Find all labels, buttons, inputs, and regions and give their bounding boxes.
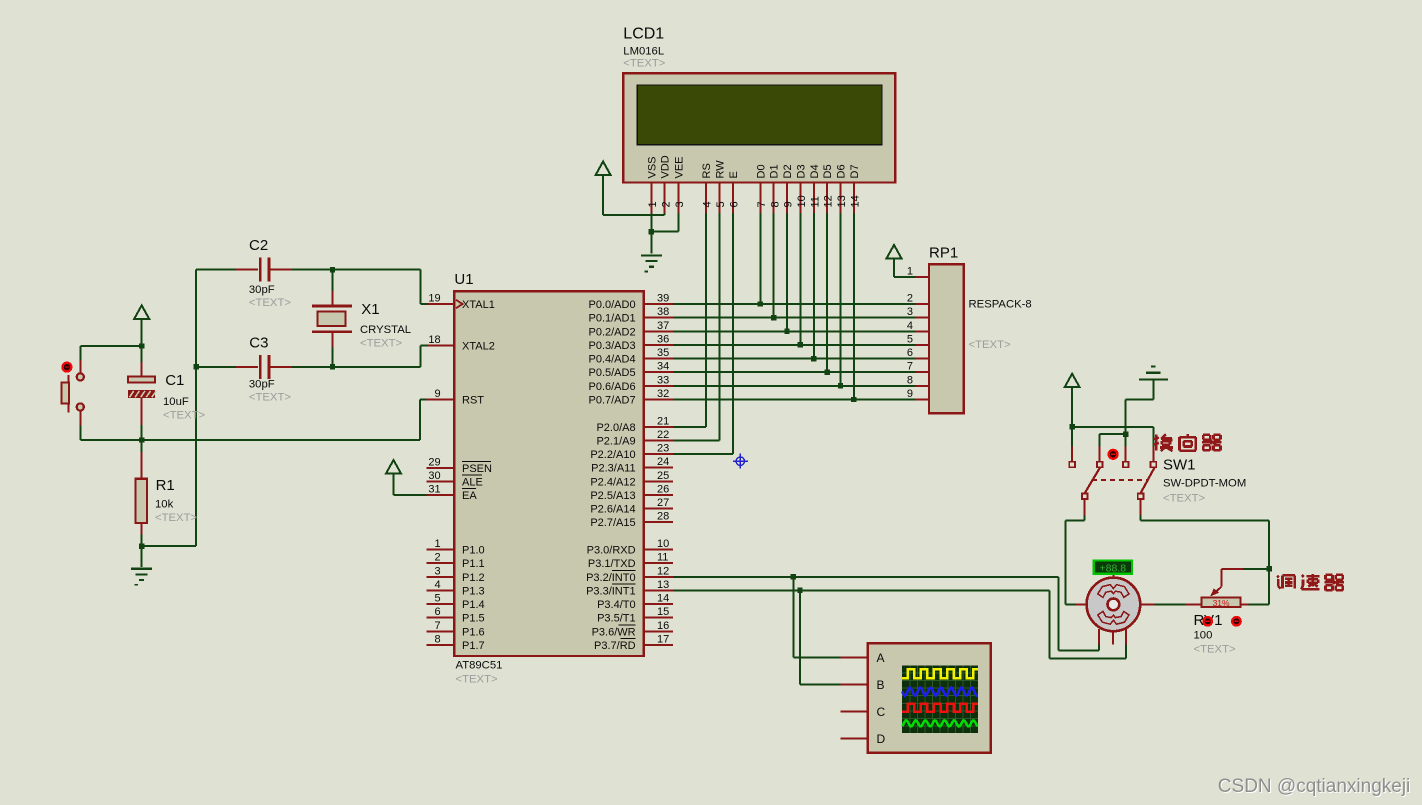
svg-text:4: 4 — [434, 579, 440, 591]
svg-text:P1.3: P1.3 — [462, 585, 485, 597]
svg-text:14: 14 — [850, 195, 862, 207]
svg-text:6: 6 — [907, 347, 913, 359]
svg-text:P0.2/AD2: P0.2/AD2 — [589, 326, 636, 338]
svg-text:D0: D0 — [755, 164, 767, 178]
svg-text:P0.1/AD1: P0.1/AD1 — [589, 313, 636, 325]
svg-text:100: 100 — [1194, 630, 1213, 642]
svg-text:1: 1 — [647, 201, 659, 207]
svg-text:XTAL1: XTAL1 — [462, 299, 495, 311]
svg-text:R1: R1 — [156, 477, 175, 494]
svg-text:3: 3 — [674, 201, 686, 207]
svg-text:2: 2 — [434, 552, 440, 564]
svg-text:28: 28 — [657, 511, 669, 523]
svg-text:RS: RS — [701, 163, 713, 178]
svg-text:SW1: SW1 — [1163, 456, 1196, 473]
svg-text:6: 6 — [434, 606, 440, 618]
svg-text:22: 22 — [657, 429, 669, 441]
svg-text:<TEXT>: <TEXT> — [360, 338, 402, 350]
svg-text:LM016L: LM016L — [623, 46, 664, 58]
svg-text:RW: RW — [714, 160, 726, 179]
svg-text:RESPACK-8: RESPACK-8 — [969, 299, 1032, 311]
svg-text:P3.0/RXD: P3.0/RXD — [587, 545, 636, 557]
svg-text:31: 31 — [428, 484, 440, 496]
svg-text:3: 3 — [434, 565, 440, 577]
svg-text:P2.1/A9: P2.1/A9 — [596, 435, 635, 447]
svg-text:5: 5 — [715, 201, 727, 207]
svg-text:25: 25 — [657, 470, 669, 482]
svg-text:12: 12 — [657, 565, 669, 577]
svg-text:SW-DPDT-MOM: SW-DPDT-MOM — [1163, 478, 1246, 490]
svg-text:C1: C1 — [165, 372, 184, 389]
svg-text:18: 18 — [428, 334, 440, 346]
svg-text:A: A — [877, 651, 885, 665]
svg-text:3: 3 — [907, 306, 913, 318]
svg-text:<TEXT>: <TEXT> — [1194, 644, 1236, 656]
svg-text:21: 21 — [657, 415, 669, 427]
svg-text:P3.7/RD: P3.7/RD — [594, 640, 636, 652]
svg-text:<TEXT>: <TEXT> — [1163, 493, 1205, 505]
svg-text:32: 32 — [657, 388, 669, 400]
svg-text:17: 17 — [657, 634, 669, 646]
svg-text:12: 12 — [823, 195, 835, 207]
svg-text:<TEXT>: <TEXT> — [249, 297, 291, 309]
svg-text:29: 29 — [428, 456, 440, 468]
svg-text:4: 4 — [907, 320, 913, 332]
svg-text:D3: D3 — [795, 164, 807, 178]
svg-text:P0.3/AD3: P0.3/AD3 — [589, 340, 636, 352]
svg-text:5: 5 — [907, 333, 913, 345]
svg-text:X1: X1 — [361, 301, 379, 318]
svg-text:23: 23 — [657, 443, 669, 455]
svg-text:<TEXT>: <TEXT> — [456, 674, 498, 686]
svg-text:P2.3/A11: P2.3/A11 — [591, 463, 635, 475]
svg-text:P2.7/A15: P2.7/A15 — [590, 517, 635, 529]
svg-text:8: 8 — [434, 634, 440, 646]
svg-text:7: 7 — [907, 361, 913, 373]
svg-text:P3.1/TXD: P3.1/TXD — [588, 558, 636, 570]
svg-text:34: 34 — [657, 361, 669, 373]
svg-text:AT89C51: AT89C51 — [456, 660, 503, 672]
svg-text:30pF: 30pF — [249, 379, 275, 391]
svg-text:30pF: 30pF — [249, 284, 275, 296]
svg-text:D7: D7 — [849, 164, 861, 178]
svg-text:10uF: 10uF — [163, 396, 189, 408]
svg-text:C: C — [877, 705, 886, 719]
svg-text:27: 27 — [657, 497, 669, 509]
svg-text:LCD1: LCD1 — [623, 26, 664, 43]
svg-text:38: 38 — [657, 306, 669, 318]
svg-text:8: 8 — [769, 201, 781, 207]
svg-text:C2: C2 — [249, 237, 268, 254]
svg-text:11: 11 — [809, 196, 821, 207]
svg-text:D6: D6 — [836, 164, 848, 178]
svg-text:9: 9 — [783, 201, 795, 207]
svg-text:13: 13 — [836, 195, 848, 207]
svg-text:CSDN @cqtianxingkeji: CSDN @cqtianxingkeji — [1218, 776, 1410, 797]
svg-text:16: 16 — [657, 620, 669, 632]
svg-text:6: 6 — [729, 201, 741, 207]
svg-text:P2.4/A12: P2.4/A12 — [590, 476, 635, 488]
svg-text:31%: 31% — [1213, 598, 1230, 608]
svg-text:5: 5 — [434, 593, 440, 605]
svg-text:10: 10 — [657, 538, 669, 550]
svg-text:P3.2/INT0: P3.2/INT0 — [586, 572, 636, 584]
svg-text:PSEN: PSEN — [462, 463, 492, 475]
svg-text:8: 8 — [907, 374, 913, 386]
svg-text:35: 35 — [657, 347, 669, 359]
svg-text:15: 15 — [657, 606, 669, 618]
svg-text:P2.5/A13: P2.5/A13 — [590, 490, 635, 502]
svg-text:P1.0: P1.0 — [462, 545, 485, 557]
svg-text:4: 4 — [702, 201, 714, 207]
svg-text:CRYSTAL: CRYSTAL — [360, 324, 411, 336]
svg-text:11: 11 — [657, 552, 668, 564]
svg-text:P1.1: P1.1 — [462, 558, 485, 570]
svg-text:P3.3/INT1: P3.3/INT1 — [586, 585, 636, 597]
svg-text:1: 1 — [907, 266, 913, 278]
svg-text:E: E — [728, 171, 740, 178]
svg-text:<TEXT>: <TEXT> — [249, 392, 291, 404]
svg-text:P3.6/WR: P3.6/WR — [592, 626, 636, 638]
svg-text:19: 19 — [428, 293, 440, 305]
svg-text:36: 36 — [657, 333, 669, 345]
svg-text:D5: D5 — [822, 164, 834, 178]
svg-text:D4: D4 — [809, 164, 821, 178]
svg-text:RP1: RP1 — [929, 245, 958, 262]
svg-text:26: 26 — [657, 484, 669, 496]
svg-text:<TEXT>: <TEXT> — [155, 512, 197, 524]
svg-text:P0.0/AD0: P0.0/AD0 — [589, 299, 636, 311]
svg-text:1: 1 — [434, 538, 440, 550]
svg-text:<TEXT>: <TEXT> — [623, 58, 665, 70]
svg-text:P1.2: P1.2 — [462, 572, 485, 584]
svg-text:U1: U1 — [454, 271, 473, 288]
svg-text:P0.5/AD5: P0.5/AD5 — [589, 367, 636, 379]
svg-text:7: 7 — [434, 620, 440, 632]
svg-text:VDD: VDD — [660, 155, 672, 178]
svg-text:14: 14 — [657, 593, 669, 605]
svg-text:9: 9 — [907, 388, 913, 400]
svg-text:10: 10 — [796, 195, 808, 207]
svg-text:P2.2/A10: P2.2/A10 — [590, 449, 635, 461]
svg-text:P3.5/T1: P3.5/T1 — [597, 613, 636, 625]
svg-text:D2: D2 — [782, 164, 794, 178]
svg-text:+88.8: +88.8 — [1100, 562, 1127, 574]
svg-text:10k: 10k — [155, 499, 174, 511]
svg-text:B: B — [877, 678, 885, 692]
svg-text:EA: EA — [462, 490, 477, 502]
svg-text:13: 13 — [657, 579, 669, 591]
svg-text:ALE: ALE — [462, 476, 483, 488]
svg-text:XTAL2: XTAL2 — [462, 341, 495, 353]
svg-text:<TEXT>: <TEXT> — [969, 339, 1011, 351]
svg-text:<TEXT>: <TEXT> — [163, 409, 205, 421]
svg-text:9: 9 — [434, 388, 440, 400]
svg-text:P2.6/A14: P2.6/A14 — [590, 504, 635, 516]
svg-text:P1.6: P1.6 — [462, 626, 485, 638]
svg-text:RST: RST — [462, 395, 484, 407]
svg-text:P3.4/T0: P3.4/T0 — [597, 599, 636, 611]
svg-text:P1.4: P1.4 — [462, 599, 485, 611]
svg-text:39: 39 — [657, 293, 669, 305]
svg-text:2: 2 — [660, 201, 672, 207]
svg-text:C3: C3 — [249, 334, 268, 351]
svg-text:7: 7 — [756, 201, 768, 207]
svg-text:P0.7/AD7: P0.7/AD7 — [589, 395, 636, 407]
svg-text:30: 30 — [428, 470, 440, 482]
svg-text:D1: D1 — [769, 164, 781, 178]
svg-text:37: 37 — [657, 320, 669, 332]
svg-text:24: 24 — [657, 456, 669, 468]
svg-text:D: D — [877, 732, 886, 746]
svg-text:P1.5: P1.5 — [462, 613, 485, 625]
svg-text:P0.6/AD6: P0.6/AD6 — [589, 381, 636, 393]
svg-text:VSS: VSS — [646, 156, 658, 178]
svg-text:P2.0/A8: P2.0/A8 — [596, 422, 635, 434]
svg-text:P1.7: P1.7 — [462, 640, 485, 652]
svg-text:P0.4/AD4: P0.4/AD4 — [589, 354, 636, 366]
svg-text:VEE: VEE — [673, 156, 685, 178]
svg-text:33: 33 — [657, 374, 669, 386]
svg-text:2: 2 — [907, 293, 913, 305]
